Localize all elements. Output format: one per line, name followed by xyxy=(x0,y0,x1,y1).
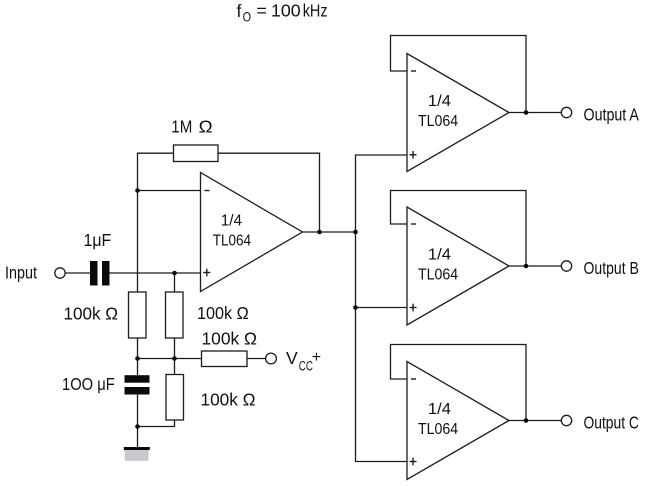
svg-text:100k Ω: 100k Ω xyxy=(197,303,249,323)
svg-text:=: = xyxy=(257,1,267,21)
svg-text:1/4: 1/4 xyxy=(428,247,451,264)
svg-text:V: V xyxy=(286,348,298,368)
svg-text:100k Ω: 100k Ω xyxy=(202,329,258,349)
svg-text:1M: 1M xyxy=(171,116,192,136)
svg-text:Output B: Output B xyxy=(584,258,639,278)
svg-text:TL064: TL064 xyxy=(418,113,458,130)
svg-text:Ω: Ω xyxy=(199,116,213,136)
svg-text:100k Ω: 100k Ω xyxy=(64,304,119,324)
svg-text:100: 100 xyxy=(271,0,301,20)
svg-text:Output C: Output C xyxy=(584,412,639,432)
svg-text:TL064: TL064 xyxy=(418,267,458,284)
svg-text:f: f xyxy=(237,1,242,21)
svg-text:1/4: 1/4 xyxy=(428,401,451,418)
svg-text:+: + xyxy=(312,349,321,366)
svg-text:1/4: 1/4 xyxy=(221,213,243,230)
svg-text:kHz: kHz xyxy=(303,0,328,20)
svg-text:1OO μF: 1OO μF xyxy=(62,374,115,394)
svg-text:O: O xyxy=(243,9,252,25)
svg-text:Output A: Output A xyxy=(584,104,640,124)
svg-text:1/4: 1/4 xyxy=(428,93,451,110)
svg-text:TL064: TL064 xyxy=(418,421,458,438)
svg-text:Input: Input xyxy=(5,263,37,283)
svg-text:TL064: TL064 xyxy=(213,233,252,250)
svg-text:100k Ω: 100k Ω xyxy=(201,390,256,410)
svg-text:1μF: 1μF xyxy=(84,230,112,250)
